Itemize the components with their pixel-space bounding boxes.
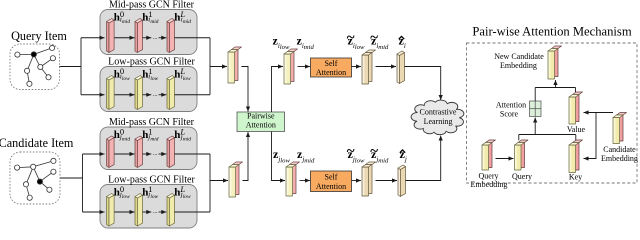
wire query+key junction to attention score <box>518 135 520 141</box>
pairwise to z_j wire <box>272 132 286 181</box>
wire candidate embedding to key <box>584 113 597 159</box>
arrows between bars <box>115 94 135 96</box>
query branch wire <box>80 38 82 95</box>
bar h^L_('j', 'low') <box>167 194 175 227</box>
wire score+value to new candidate <box>534 88 536 102</box>
arrows between bars <box>115 37 135 39</box>
bar h^1_('j', 'low') <box>135 194 143 227</box>
pairwise attention box <box>237 112 285 132</box>
candidate embedding stack <box>613 113 627 144</box>
svg-text:~: ~ <box>347 144 355 160</box>
bar h^0_('i', 'low') <box>107 76 115 110</box>
arrows between bars <box>115 153 135 155</box>
new candidate embedding stack <box>548 46 562 79</box>
wire z^_i to contrastive cloud <box>405 67 441 101</box>
z~_j stack <box>362 162 376 196</box>
candidate graph edges <box>17 161 53 198</box>
svg-text:...: ... <box>153 34 158 41</box>
bar h^0_('j', 'mid') <box>107 136 115 168</box>
attention score grid <box>530 101 542 117</box>
value stack <box>569 92 583 124</box>
z^_i bar <box>397 51 405 84</box>
svg-text:Contrastive: Contrastive <box>420 108 457 117</box>
bar h^0_('i', 'mid') <box>107 19 115 53</box>
wire self attention to z~_j <box>352 180 362 182</box>
svg-text:Query Item: Query Item <box>11 29 67 43</box>
candidate item output wire <box>60 177 83 179</box>
self attention box (top) <box>311 58 352 77</box>
wire z_j to self attention <box>300 180 311 182</box>
svg-text:Embedding: Embedding <box>471 180 508 189</box>
query embedding stack <box>482 140 496 170</box>
bar h^1_('i', 'low') <box>135 76 143 110</box>
filter output wire <box>175 153 211 155</box>
self attention box (bottom) <box>311 171 352 192</box>
filter box Mid-pass GCN Filter <box>100 127 197 170</box>
arrow into candidate low filter <box>83 211 105 213</box>
svg-text:~: ~ <box>347 30 355 46</box>
z~_i stack <box>362 50 376 84</box>
bar h^L_('i', 'mid') <box>167 19 175 53</box>
filter output wire <box>175 94 211 96</box>
arrow into candidate concat stack <box>210 180 228 182</box>
query graph edges <box>17 48 53 84</box>
wire z~_j to z^_j <box>376 180 398 182</box>
query concat stack <box>228 47 242 83</box>
svg-text:Value: Value <box>567 125 586 134</box>
svg-text:Key: Key <box>569 173 582 182</box>
query item output wire <box>60 66 82 68</box>
svg-text:~: ~ <box>370 144 378 160</box>
candidate concat stack <box>229 162 243 197</box>
candidate graph nodes <box>15 158 57 200</box>
svg-text:Query: Query <box>479 171 499 180</box>
candidate branch wire <box>82 154 84 212</box>
query graph nodes <box>15 45 56 86</box>
arrows between bars <box>115 211 135 213</box>
filter box Mid-pass GCN Filter <box>100 10 197 55</box>
query stack to pairwise wire <box>242 67 249 112</box>
z_j concat stack <box>286 162 300 196</box>
svg-text:Self: Self <box>325 59 338 68</box>
z^_j bar <box>398 165 406 197</box>
svg-text:Score: Score <box>500 109 519 118</box>
wire z_i to self attention <box>298 66 311 68</box>
svg-text:Pairwise: Pairwise <box>247 111 275 120</box>
candidate item graph box <box>10 152 60 204</box>
query item graph box <box>10 44 60 90</box>
arrow into query low filter <box>81 94 105 96</box>
svg-text:...: ... <box>153 91 158 98</box>
bar h^0_('j', 'low') <box>107 194 115 227</box>
svg-text:Embedding: Embedding <box>601 154 638 163</box>
svg-text:Candidate Item: Candidate Item <box>0 136 74 150</box>
filter box Low-pass GCN Filter <box>100 67 197 112</box>
svg-text:Learning: Learning <box>424 117 453 126</box>
key stack <box>569 140 583 173</box>
arrow into query mid filter <box>81 37 105 39</box>
bar h^L_('j', 'mid') <box>167 136 175 168</box>
svg-text:Candidate: Candidate <box>603 145 636 154</box>
svg-text:Pair-wise Attention Mechanism: Pair-wise Attention Mechanism <box>472 25 631 39</box>
bar h^1_('i', 'mid') <box>135 19 143 53</box>
svg-text:Attention: Attention <box>316 68 346 77</box>
query filters merge wire <box>209 38 211 95</box>
panel dashed border <box>467 43 638 183</box>
svg-text:Attention: Attention <box>316 182 346 191</box>
svg-text:New Candidate: New Candidate <box>494 52 544 61</box>
contrastive learning cloud <box>411 100 464 135</box>
svg-text:...: ... <box>153 150 158 157</box>
filter box Low-pass GCN Filter <box>100 185 197 229</box>
wire z^_j to contrastive cloud <box>406 136 441 181</box>
svg-text:Query: Query <box>512 172 532 181</box>
wire z~_i to z^_i <box>376 66 397 68</box>
filter output wire <box>175 211 211 213</box>
z_i concat stack <box>284 49 298 84</box>
arrow into candidate mid filter <box>83 153 105 155</box>
query stack (panel) <box>515 140 529 170</box>
arrow into query concat stack <box>210 66 227 68</box>
wire query embedding to query <box>496 158 514 160</box>
bar h^L_('i', 'low') <box>167 76 175 110</box>
pairwise to z_i wire <box>272 67 284 113</box>
wire candidate embedding to value <box>584 112 614 114</box>
svg-text:Self: Self <box>325 172 338 181</box>
svg-text:~: ~ <box>370 30 378 46</box>
candidate stack to pairwise wire <box>243 132 249 181</box>
bar h^1_('j', 'mid') <box>135 136 143 168</box>
candidate filters merge wire <box>209 154 211 212</box>
wire self attention to z~_i <box>352 66 362 68</box>
svg-text:...: ... <box>153 208 158 215</box>
svg-text:Attention: Attention <box>246 121 276 130</box>
svg-text:Embedding: Embedding <box>500 61 537 70</box>
filter output wire <box>175 37 211 39</box>
